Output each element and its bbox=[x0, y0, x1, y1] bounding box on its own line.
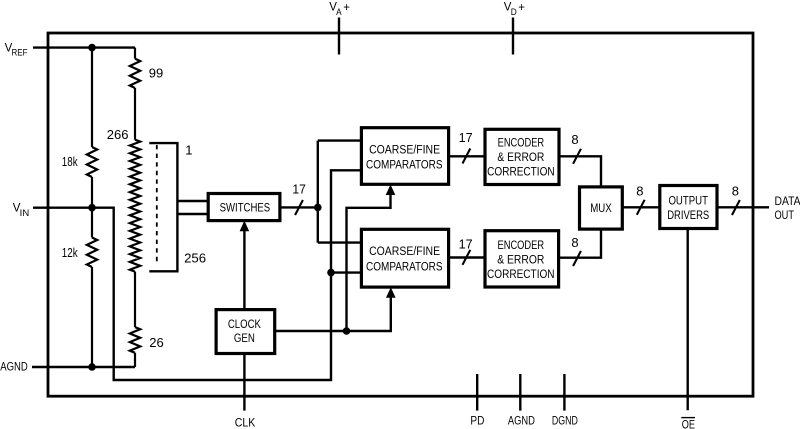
svg-text:AGND: AGND bbox=[0, 362, 28, 374]
svg-text:DGND: DGND bbox=[552, 416, 578, 428]
svg-text:8: 8 bbox=[636, 184, 643, 199]
svg-text:256: 256 bbox=[184, 251, 206, 266]
svg-text:OUT: OUT bbox=[775, 210, 795, 222]
svg-text:CLK: CLK bbox=[235, 417, 256, 429]
svg-text:+: + bbox=[518, 2, 525, 14]
svg-text:COMPARATORS: COMPARATORS bbox=[366, 159, 443, 171]
svg-text:REF: REF bbox=[12, 48, 28, 58]
svg-text:17: 17 bbox=[459, 237, 473, 252]
svg-text:26: 26 bbox=[149, 335, 163, 350]
svg-text:OUTPUT: OUTPUT bbox=[668, 196, 708, 208]
svg-text:COMPARATORS: COMPARATORS bbox=[366, 262, 443, 274]
svg-text:GEN: GEN bbox=[234, 333, 255, 345]
svg-text:CORRECTION: CORRECTION bbox=[487, 167, 555, 179]
svg-text:COARSE/FINE: COARSE/FINE bbox=[369, 246, 440, 258]
svg-text:ENCODER: ENCODER bbox=[498, 138, 545, 150]
svg-text:A: A bbox=[336, 7, 342, 17]
svg-text:& ERROR: & ERROR bbox=[497, 152, 544, 164]
svg-text:8: 8 bbox=[571, 132, 578, 147]
svg-text:12k: 12k bbox=[62, 245, 78, 260]
svg-text:ENCODER: ENCODER bbox=[498, 240, 545, 252]
svg-text:AGND: AGND bbox=[508, 416, 535, 428]
svg-text:& ERROR: & ERROR bbox=[497, 255, 544, 267]
svg-text:COARSE/FINE: COARSE/FINE bbox=[369, 144, 440, 156]
svg-text:IN: IN bbox=[20, 208, 30, 218]
svg-text:SWITCHES: SWITCHES bbox=[220, 203, 271, 215]
svg-text:CORRECTION: CORRECTION bbox=[487, 269, 555, 281]
svg-text:8: 8 bbox=[732, 184, 739, 199]
svg-text:17: 17 bbox=[292, 181, 306, 196]
svg-text:17: 17 bbox=[459, 130, 473, 145]
svg-text:DATA: DATA bbox=[775, 196, 800, 208]
svg-text:18k: 18k bbox=[62, 154, 78, 169]
svg-text:CLOCK: CLOCK bbox=[228, 319, 261, 331]
svg-text:99: 99 bbox=[149, 66, 163, 81]
svg-text:DRIVERS: DRIVERS bbox=[667, 210, 709, 222]
svg-text:1: 1 bbox=[185, 142, 192, 157]
svg-text:8: 8 bbox=[571, 235, 578, 250]
svg-text:+: + bbox=[343, 2, 350, 14]
svg-text:PD: PD bbox=[470, 416, 484, 428]
svg-text:MUX: MUX bbox=[590, 203, 612, 215]
svg-text:OE: OE bbox=[682, 420, 695, 429]
svg-text:266: 266 bbox=[107, 127, 129, 142]
svg-text:D: D bbox=[511, 7, 517, 17]
